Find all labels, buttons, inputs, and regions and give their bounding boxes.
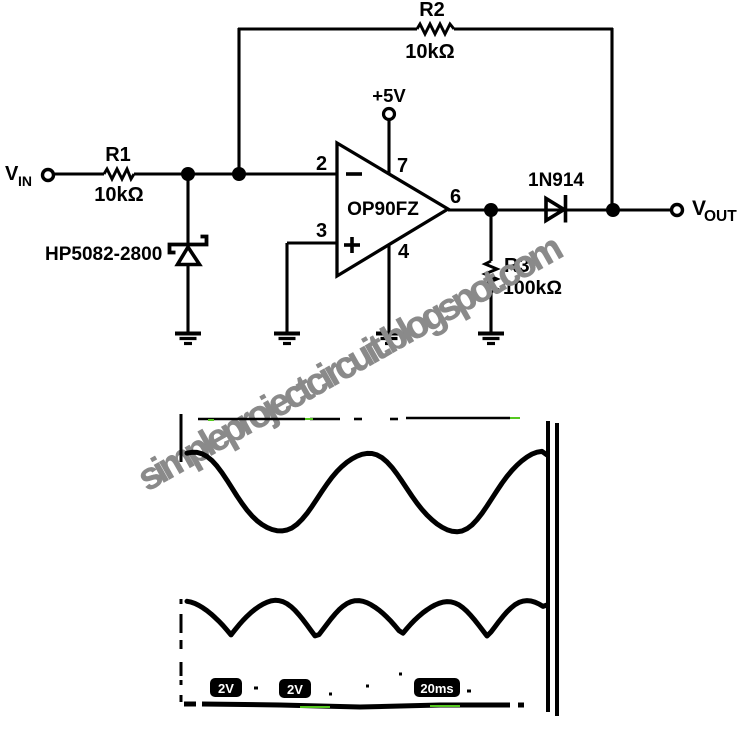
node junction B (feedback tap): [232, 167, 246, 181]
resistor R1: [104, 169, 134, 179]
wire diode D1 bottom: [186, 264, 189, 333]
scope noise marks: [254, 674, 471, 694]
svg-text:OP90FZ: OP90FZ: [347, 199, 419, 220]
svg-text:V: V: [5, 163, 19, 185]
op-amp minus input sign: [346, 172, 362, 176]
resistor R2: [417, 24, 454, 34]
node VOUT terminal: [672, 205, 683, 216]
wire diode D1 top: [186, 174, 189, 245]
op-amp plus input sign: [344, 237, 360, 253]
wire feedback left vertical: [237, 28, 240, 174]
node junction A (diode tap): [181, 167, 195, 181]
svg-text:2: 2: [316, 153, 327, 175]
wire +5V to pin 7: [387, 120, 390, 174]
node VIN terminal: [43, 170, 54, 181]
scope frame left tick top: [180, 414, 183, 462]
svg-text:R1: R1: [105, 144, 131, 166]
ground (pin 3): [274, 334, 300, 344]
ground (diode D1): [175, 334, 201, 344]
wire pin 3 horizontal: [287, 241, 337, 244]
node +5V terminal: [384, 109, 395, 120]
wire feedback right vertical: [610, 28, 613, 210]
svg-text:IN: IN: [18, 173, 32, 189]
wire top rail right of R2: [454, 27, 613, 30]
wire VIN to R1: [54, 172, 104, 175]
svg-text:6: 6: [450, 186, 461, 208]
svg-text:3: 3: [316, 220, 327, 242]
svg-text:2V: 2V: [287, 682, 303, 697]
svg-text:7: 7: [397, 155, 408, 177]
node junction D (feedback join): [606, 203, 620, 217]
wire pin 3 vertical to ground: [285, 243, 288, 333]
scope label 2V channel 1: [210, 678, 242, 697]
label VOUT: [692, 197, 737, 225]
wire pin 4 to ground: [387, 244, 390, 333]
wire R3 bottom: [489, 292, 492, 333]
svg-text:20ms: 20ms: [420, 681, 453, 696]
diode D1 HP5082-2800 (schottky): [170, 237, 207, 265]
svg-text:+5V: +5V: [372, 85, 406, 106]
scope label 20ms timebase: [414, 678, 460, 697]
wire R1 to op-amp input: [134, 172, 337, 175]
svg-text:1N914: 1N914: [528, 170, 584, 191]
scope label 2V channel 2: [279, 679, 311, 698]
ground (pin 4): [376, 334, 402, 344]
scope trace rectified wave: [187, 600, 547, 636]
scope frame right vertical line 2: [555, 423, 559, 716]
svg-text:4: 4: [398, 241, 410, 263]
svg-text:10kΩ: 10kΩ: [94, 184, 143, 206]
ground (R3): [478, 334, 504, 344]
wire R3 top: [489, 210, 492, 261]
wire op-amp output: [448, 208, 671, 211]
svg-text:HP5082-2800: HP5082-2800: [45, 244, 162, 265]
svg-text:OUT: OUT: [704, 208, 737, 225]
scope frame right vertical line 1: [546, 421, 550, 712]
scope border green scan tint marks: [208, 418, 520, 707]
svg-text:R2: R2: [419, 0, 445, 21]
label VIN: [5, 163, 32, 189]
scope trace sine wave: [187, 451, 547, 531]
wire top rail left of R2: [238, 27, 417, 30]
svg-text:10kΩ: 10kΩ: [405, 41, 454, 63]
scope frame top dashed border: [198, 418, 510, 419]
node junction C (R3 tap): [484, 203, 498, 217]
resistor R3: [485, 261, 497, 292]
scope frame left tick bottom: [180, 599, 183, 702]
scope frame bottom border: [184, 704, 524, 707]
diode D2 1N914: [546, 195, 566, 223]
op-amp U1 OP90FZ: [337, 143, 448, 276]
svg-text:2V: 2V: [218, 681, 234, 696]
